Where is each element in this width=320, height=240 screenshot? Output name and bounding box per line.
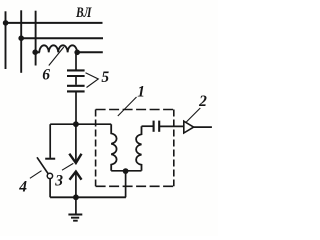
capacitor C5a bottom plate (67, 75, 85, 77)
wire down to switch fixed contact (49, 124, 51, 158)
svg-text:2: 2 (198, 93, 207, 110)
switch S4 hinge circle (47, 173, 52, 178)
leader line for label 6 (49, 47, 64, 66)
ground symbol (68, 215, 82, 221)
wire node A horizontal (50, 123, 111, 125)
capacitor C5b bottom plate (67, 90, 85, 92)
capacitor C7 right plate (158, 121, 160, 132)
leader lines for label 5 (86, 73, 99, 88)
filter unit 1 dashed box bottom edge (96, 185, 174, 187)
svg-text:6: 6 (42, 67, 50, 84)
filter unit 1 dashed box left edge (95, 110, 97, 187)
filter unit 1 dashed box right edge (173, 110, 175, 187)
leader line for label 4 (30, 171, 42, 179)
wire tap vertical 2 (20, 10, 22, 73)
wire capacitor to amplifier (159, 125, 184, 127)
capacitor C5a top plate (67, 69, 85, 71)
leader line for label 1 (118, 97, 137, 116)
wire amplifier output (194, 126, 212, 128)
inductor L6 line trap coil (39, 45, 77, 52)
wire capacitor down to node A (75, 92, 77, 124)
wire ground stem (75, 197, 77, 214)
wire tap vertical 1 (5, 11, 7, 69)
node A junction dot (73, 121, 79, 127)
node junction dot phase 2 (18, 35, 24, 41)
wire ground bus bottom (50, 196, 126, 198)
svg-text:ВЛ: ВЛ (75, 5, 92, 21)
svg-text:4: 4 (18, 178, 27, 195)
capacitor C7 left plate (153, 121, 155, 132)
svg-text:3: 3 (54, 173, 63, 190)
wire between capacitors (75, 77, 77, 85)
wire tap vertical 3 (35, 11, 37, 66)
wire from phase 3 down to coupling capacitor (75, 52, 77, 69)
transformer T secondary winding (136, 126, 141, 171)
node junction dot phase 3 right (74, 50, 80, 56)
transformer T primary winding (111, 124, 116, 171)
wire transformer bottom (111, 170, 141, 172)
spark gap FV3 lower arrowhead (70, 172, 82, 180)
wire phase line 3 left stub (35, 51, 40, 53)
spark gap FV3 lower arrow shaft (75, 172, 77, 197)
spark gap FV3 upper arrow shaft (75, 124, 77, 162)
switch S4 fixed contact bar (45, 158, 55, 160)
wire phase line 1 (6, 22, 103, 24)
filter unit 1 dashed box top edge (96, 109, 174, 111)
wire phase line 3 right segment (77, 51, 103, 53)
capacitor C5b top plate (67, 85, 85, 87)
node junction dot phase 3 left (32, 49, 38, 55)
node transformer centre dot (123, 168, 129, 174)
wire phase line 2 (21, 37, 103, 39)
node junction dot phase 1 (3, 20, 9, 26)
wire secondary to coupling capacitor (142, 125, 154, 127)
leader line for label 2 (186, 108, 200, 122)
spark gap FV3 upper arrowhead (69, 154, 81, 163)
svg-text:1: 1 (137, 83, 145, 100)
wire transformer centre to ground bus (125, 171, 127, 197)
node ground junction dot (73, 194, 79, 200)
amplifier U2 triangle (184, 121, 194, 133)
svg-text:5: 5 (101, 69, 109, 86)
leader line for label 3 (62, 163, 73, 170)
switch S4 blade (37, 157, 48, 174)
wire below hinge (49, 179, 51, 198)
